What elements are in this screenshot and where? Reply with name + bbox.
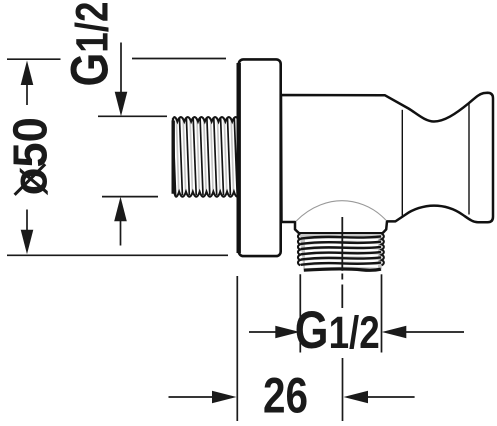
dimension 26: left arrow (169, 391, 237, 404)
flange thick left edge (236, 63, 240, 253)
holder interior line (cap face edge) (468, 104, 470, 215)
wall flange (ø50 escutcheon) (239, 59, 281, 256)
dimension G1/2 top: upper arrow (points down to thread top) (115, 43, 128, 117)
dimension 26: right arrow (344, 391, 415, 404)
dimension ø50: lower arrow and shaft (21, 210, 34, 255)
dimension G1/2 top: lower arrow (points up to thread bottom) (114, 197, 127, 246)
dimension G1/2 bottom: left arrow (249, 326, 300, 339)
outlet centerline (341, 217, 343, 308)
svg-text:G1/2: G1/2 (295, 301, 380, 360)
dimension ø50: top extension line (flange top level) (7, 58, 61, 60)
inlet thread pipe (left, G1/2) (173, 117, 241, 197)
holder body outline (body + hand shower holder + outlet collar) (281, 93, 493, 234)
holder interior line (cone base edge) (401, 110, 403, 217)
svg-text:ø50: ø50 (5, 117, 58, 195)
dimension G1/2 bottom: right extension line (381, 274, 383, 352)
dimension G1/2 bottom: left extension line (299, 274, 301, 352)
dimension ø50: bottom extension line (flange bottom level) (7, 254, 228, 256)
dimension G1/2 bottom: right arrow (382, 326, 464, 339)
dimension ø50: slash tip extension (15, 164, 46, 195)
dimension G1/2 top: thread-top extension line (98, 115, 167, 117)
dimension 26: centre extension line (342, 358, 344, 421)
dimension G1/2 top: leader line right segment (132, 58, 226, 60)
outlet thread (bottom, G1/2) (298, 234, 384, 271)
dimension ø50: upper arrow and shaft (21, 61, 34, 106)
dome arc (fillet over outlet) (296, 201, 386, 222)
dimension 26: left extension line (wall face) (236, 276, 238, 421)
dimension G1/2 top: thread-bottom extension line (102, 196, 158, 198)
svg-text:26: 26 (263, 368, 308, 424)
svg-text:G1/2: G1/2 (61, 2, 120, 87)
